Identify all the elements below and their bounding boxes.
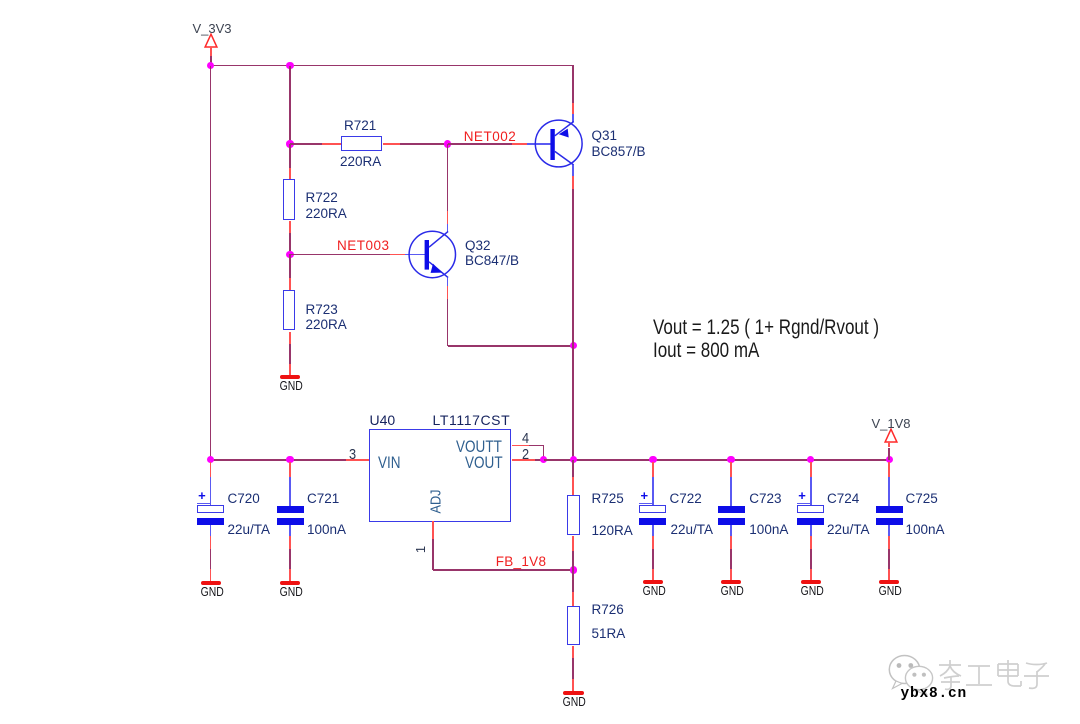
wire top rail V_3V3 <box>211 65 575 67</box>
wire V_1V8 to rail <box>888 448 890 460</box>
pin Q32 collector blue <box>447 224 449 232</box>
junction rail-A <box>207 62 214 69</box>
ground C725 <box>879 580 899 585</box>
transistor Q31 BC857/B <box>531 116 585 172</box>
ground C721 <box>280 581 300 586</box>
wire C721 leads lower blue lead <box>289 525 291 537</box>
annotation Iout <box>653 340 759 361</box>
transistor Q32 BC847/B <box>405 227 459 283</box>
label R725 <box>592 492 624 506</box>
wire C724 leads upper red stub <box>810 462 812 477</box>
pin number 3 <box>349 448 356 463</box>
wire C723 leads lower red stub <box>730 536 732 549</box>
wire rail to Q31 emitter <box>572 66 574 104</box>
wire R722 to NET003 <box>289 233 291 254</box>
pin number 4 <box>522 432 529 447</box>
wire C720 leads lower red stub <box>210 536 212 549</box>
wire NET003 <box>290 254 390 256</box>
wire C724 leads gnd red stub <box>810 569 812 581</box>
wire C723 leads gnd red stub <box>730 569 732 581</box>
capacitor C725 <box>876 506 903 513</box>
pin R722 bottom <box>289 221 291 233</box>
wire pin4 elbow v <box>543 446 545 460</box>
pin Q32 collector red <box>447 211 449 224</box>
wire C721 leads lower red stub <box>289 536 291 549</box>
resistor R722 <box>283 179 296 220</box>
pin R726 top <box>572 592 574 606</box>
wire R723 to GND <box>289 344 291 365</box>
pin number 2 <box>522 448 529 463</box>
ground R726 <box>563 691 584 696</box>
junction FB-D <box>570 566 577 573</box>
wire C725 leads gnd red stub <box>888 569 890 581</box>
pin name VOUTT <box>456 439 502 456</box>
wire C725 leads lower blue lead <box>888 525 890 537</box>
pin ADJ red <box>432 521 434 539</box>
capacitor C721 <box>277 506 304 513</box>
wire V_3V3 red stub <box>210 47 212 56</box>
wire C722 leads upper red stub <box>652 462 654 477</box>
wire NET003 to R723 <box>289 254 291 278</box>
wire C721 leads gnd red stub <box>289 569 291 582</box>
junction VIN-B <box>286 456 293 463</box>
wire C724 leads lower red stub <box>810 536 812 549</box>
junction Q32emitter-D <box>570 342 577 349</box>
pin R721 right <box>383 143 400 145</box>
pin Q31 base red <box>512 143 527 145</box>
pin R725 top <box>572 477 574 496</box>
pin Q32 emitter blue <box>447 278 449 286</box>
pin Q31 collector blue <box>572 165 574 176</box>
pin GND stub R726 <box>572 679 574 692</box>
wire C720 leads gnd red stub <box>210 569 212 582</box>
wire C725 leads lower wire <box>888 549 890 569</box>
net label NET003 <box>337 239 390 253</box>
wire V_3V3 to rail <box>210 56 212 65</box>
ground C724 <box>801 580 821 585</box>
wire NET002 <box>448 143 512 145</box>
wire Q32 emitter to column D <box>448 345 574 347</box>
wire column A vertical <box>210 66 212 460</box>
wire Q31 collector down <box>572 189 574 346</box>
pin name VOUT <box>465 455 503 472</box>
junction vout-F <box>727 456 734 463</box>
label U40 <box>370 413 396 427</box>
pin R725 bottom <box>572 536 574 551</box>
value R721 220RA <box>340 155 381 169</box>
wire R725 to FB <box>572 551 574 570</box>
wire VOUT short <box>535 459 544 461</box>
pin VIN red <box>346 459 369 461</box>
label Q32 <box>465 239 491 253</box>
pin R722 top <box>289 168 291 180</box>
capacitor C722 <box>639 505 666 512</box>
wire C725 leads lower red stub <box>888 536 890 549</box>
power symbol V_1V8 <box>883 428 899 444</box>
value R725 120RA <box>592 524 633 538</box>
pin name VIN <box>378 455 401 472</box>
wire C723 leads lower blue lead <box>730 525 732 537</box>
wire FB to R726 <box>572 570 574 592</box>
wire V_1V8 red stub <box>888 442 890 447</box>
wire C721 leads upper blue lead <box>289 477 291 507</box>
wire D vrow to R725 <box>572 460 574 477</box>
wire R726 to GND <box>572 658 574 679</box>
wire C720 leads lower blue lead <box>210 525 212 537</box>
pin Q31 base blue <box>527 143 551 145</box>
wire C720 leads upper blue lead <box>210 477 212 507</box>
ground C723 <box>721 580 741 585</box>
pin Q32 emitter red <box>447 286 449 299</box>
pin R723 top <box>289 278 291 291</box>
wire C721 leads upper red stub <box>289 462 291 477</box>
wire FB_1V8 <box>433 569 573 571</box>
wire NET002 to Q32 collector <box>447 144 449 211</box>
resistor R723 <box>283 290 296 331</box>
junction vout-G <box>807 456 814 463</box>
wire R721 to NET002 <box>400 143 448 145</box>
junction pin4-vout <box>540 456 547 463</box>
wire C720 leads lower wire <box>210 549 212 569</box>
wire C723 leads upper blue lead <box>730 477 732 507</box>
junction vout-D <box>570 456 577 463</box>
junction NET003 <box>286 251 293 258</box>
wire C722 leads lower blue lead <box>652 525 654 537</box>
value R723 220RA <box>306 318 347 332</box>
wire C725 leads upper blue lead <box>888 477 890 507</box>
net label FB_1V8 <box>496 555 547 569</box>
value Q31 BC857/B <box>592 145 646 159</box>
ground C720 <box>201 581 221 586</box>
pin VOUTT red <box>512 445 529 447</box>
wire C724 leads lower blue lead <box>810 525 812 537</box>
pin Q31 emitter blue <box>572 114 574 122</box>
wire C723 leads lower wire <box>730 549 732 569</box>
junction NET002 <box>444 140 451 147</box>
pin name ADJ <box>429 489 444 513</box>
wire C722 leads lower wire <box>652 549 654 569</box>
junction rail-B <box>286 62 293 69</box>
pin Q31 emitter red <box>572 103 574 114</box>
wire Q32 emitter down <box>447 299 449 346</box>
label R726 <box>592 603 624 617</box>
pin Q31 collector red <box>572 176 574 189</box>
op-amp U40 LT1117CST box <box>369 429 512 522</box>
wire column B rail to R721 row <box>289 66 291 145</box>
wire VOUT rail <box>544 459 890 461</box>
wire C722 leads upper blue lead <box>652 477 654 507</box>
wire C720 leads upper red stub <box>210 462 212 477</box>
pin R726 bottom <box>572 646 574 658</box>
wire ADJ down <box>432 539 434 571</box>
wire VIN row <box>211 459 347 461</box>
junction VIN-A <box>207 456 214 463</box>
value R722 220RA <box>306 207 347 221</box>
resistor R725 <box>567 495 580 535</box>
wire C724 leads upper blue lead <box>810 477 812 507</box>
pin R723 bottom <box>289 332 291 344</box>
capacitor C720 <box>197 505 224 512</box>
watermark wechat icon <box>886 652 936 696</box>
resistor R726 <box>567 606 580 645</box>
label R722 <box>306 191 338 205</box>
wire C721 leads lower wire <box>289 549 291 569</box>
wire C722 leads gnd red stub <box>652 569 654 581</box>
net label NET002 <box>464 130 517 144</box>
capacitor C723 <box>718 506 745 513</box>
junction vout-E <box>649 456 656 463</box>
pin Q32 base red <box>390 254 405 256</box>
annotation Vout formula <box>653 317 879 338</box>
wire pin4 elbow h <box>529 445 544 447</box>
resistor R721 <box>341 136 382 151</box>
power symbol V_3V3 <box>203 33 219 49</box>
wire D qrow to vout row <box>572 346 574 460</box>
pin Q32 base blue <box>405 254 425 256</box>
ground C722 <box>643 580 663 585</box>
wire C725 leads upper red stub <box>888 462 890 477</box>
label Q31 <box>592 129 618 143</box>
wire C723 leads upper red stub <box>730 462 732 477</box>
wire C722 leads lower red stub <box>652 536 654 549</box>
watermark text liggong dianzi <box>937 659 1049 691</box>
wire to R721 <box>290 143 322 145</box>
pin VOUT red <box>512 459 535 461</box>
watermark ybx8.cn <box>901 687 968 702</box>
value LT1117CST <box>433 413 511 427</box>
ground R723 <box>280 375 300 380</box>
pin GND stub R723 <box>289 364 291 376</box>
wire C724 leads lower wire <box>810 549 812 569</box>
junction vout-H <box>886 456 893 463</box>
value R726 51RA <box>592 627 626 641</box>
label R723 <box>306 303 338 317</box>
pin number 1 <box>414 546 427 553</box>
wire B R721row to R722 <box>289 144 291 168</box>
label R721 <box>344 119 376 133</box>
junction R721 row <box>286 140 293 147</box>
pin R721 left <box>322 143 342 145</box>
value Q32 BC847/B <box>465 254 519 268</box>
capacitor C724 <box>797 505 824 512</box>
